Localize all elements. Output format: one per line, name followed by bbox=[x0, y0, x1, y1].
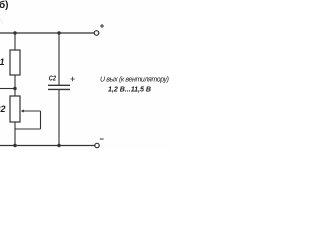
node junction bottom-center bbox=[57, 144, 60, 147]
terminal + output (open circle) bbox=[94, 31, 99, 36]
wire C2 bottom to bottom rail bbox=[58, 89, 60, 145]
wire from top rail to R1 bbox=[14, 33, 16, 50]
resistor R1 bbox=[10, 50, 20, 75]
node junction top-center bbox=[57, 31, 60, 34]
label - polarity bottom bbox=[100, 138, 104, 140]
wire R2 bottom to bottom rail bbox=[14, 122, 16, 146]
capacitor C2 bottom plate bbox=[48, 88, 70, 90]
potentiometer R2 body bbox=[10, 96, 20, 122]
wire top positive rail bbox=[0, 32, 94, 34]
wire bottom negative rail bbox=[0, 145, 95, 147]
node junction mid-left bbox=[13, 87, 16, 90]
terminal - output (open circle) bbox=[95, 143, 99, 147]
faint mark left edge bbox=[0, 18, 3, 24]
svg-text:б): б) bbox=[0, 0, 9, 11]
svg-text:1,2 В...11,5 В: 1,2 В...11,5 В bbox=[108, 85, 151, 94]
svg-text:R1: R1 bbox=[0, 57, 5, 67]
node junction bottom-left bbox=[13, 144, 16, 147]
wire stub to left edge bbox=[0, 88, 15, 90]
wire wiper to right bbox=[24, 110, 41, 112]
label + polarity of C2 bbox=[70, 77, 74, 81]
node junction top-left bbox=[13, 31, 16, 34]
svg-text:C2: C2 bbox=[49, 76, 56, 83]
wiper arrow of R2 bbox=[21, 110, 24, 113]
wire R1 bottom to junction bbox=[14, 75, 16, 96]
svg-text:U вых (к вентилятору): U вых (к вентилятору) bbox=[100, 77, 169, 84]
wire top rail to C2 bbox=[58, 33, 60, 85]
svg-text:R2: R2 bbox=[0, 104, 6, 114]
label + polarity top bbox=[100, 24, 104, 28]
wire wiper loop down bbox=[40, 111, 42, 129]
wire wiper loop to left bbox=[15, 128, 41, 130]
capacitor C2 top plate bbox=[48, 84, 70, 86]
